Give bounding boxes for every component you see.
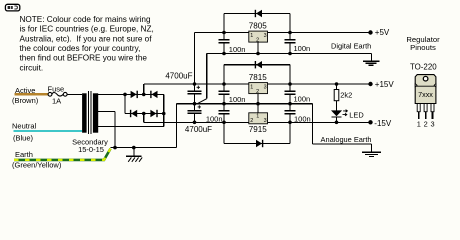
wire secondary top lead [98, 93, 131, 95]
svg-text:+5V: +5V [375, 28, 390, 37]
wire fuse to primary [67, 93, 82, 95]
wire 7805 input riser [194, 33, 196, 85]
wire bridge bottom row [125, 113, 164, 115]
node 7815 out junction [288, 82, 292, 86]
wire U3 pin1 to 0V [257, 104, 259, 113]
wire 7815 diode loop [224, 64, 290, 66]
svg-text:Earth: Earth [15, 150, 33, 159]
wire secondary centre tap [98, 111, 115, 113]
svg-text:Australia, etc). If you are n: Australia, etc). If you are not sure of [20, 34, 153, 43]
wire centre tap drop [114, 112, 116, 148]
wire U1 pin2 to gnd [257, 42, 259, 53]
svg-text:4700uF: 4700uF [185, 125, 212, 134]
svg-text:15-0-15: 15-0-15 [78, 145, 104, 154]
node C3 gnd [222, 52, 226, 56]
svg-text:LED: LED [349, 111, 363, 120]
node +15V terminal [368, 82, 372, 86]
capacitor C2 4700uF (bottom) [188, 104, 202, 123]
svg-text:circuit.: circuit. [20, 63, 44, 72]
diode D1 (bridge top-left) [131, 91, 137, 98]
node bridge AC2 joint [162, 112, 166, 116]
wire +V rail [144, 83, 249, 85]
transformer core [89, 91, 91, 134]
svg-text:Digital Earth: Digital Earth [331, 41, 371, 50]
svg-text:7805: 7805 [249, 21, 268, 30]
node C4 gnd [288, 52, 292, 56]
node C6 gnd [288, 102, 292, 106]
diode D3 (bridge bottom-left) [131, 110, 137, 117]
capacitor C1 4700uF (top) [188, 84, 202, 104]
node bridge -mid [142, 112, 146, 116]
wire bridge AC2 vertical [163, 94, 165, 126]
analogue earth symbol [362, 151, 381, 153]
svg-text:the colour codes for your coun: the colour codes for your country, [20, 44, 141, 53]
diode D7 (across 7915) [256, 140, 262, 147]
node C1+ on +V rail [193, 82, 197, 86]
node C2- on -V rail [193, 121, 197, 125]
wire earth bus [111, 147, 177, 149]
svg-text:3: 3 [264, 33, 267, 39]
svg-text:100n: 100n [294, 95, 311, 104]
fuse F1 [48, 92, 67, 96]
node 7805 out junction [288, 31, 292, 35]
capacitor C4 100n [284, 33, 295, 54]
svg-text:(Green/Yellow): (Green/Yellow) [12, 161, 62, 170]
svg-text:Analogue Earth: Analogue Earth [321, 135, 372, 144]
svg-text:7815: 7815 [249, 73, 268, 82]
svg-text:100n: 100n [229, 45, 246, 54]
logo icon [5, 4, 19, 11]
wire digital ground rail [207, 53, 372, 55]
TO-220 package [415, 75, 436, 119]
svg-text:NOTE: Colour code for mains wi: NOTE: Colour code for mains wiring [20, 15, 151, 24]
capacitor C6 100n [284, 84, 295, 104]
capacitor C7 100n [218, 104, 229, 123]
wire LED to -15V rail [336, 118, 338, 123]
svg-text:1: 1 [417, 119, 421, 128]
svg-text:3: 3 [264, 118, 267, 124]
svg-text:1A: 1A [52, 96, 61, 105]
svg-text:1: 1 [250, 84, 253, 90]
svg-text:3: 3 [431, 119, 435, 128]
node U2 gnd [256, 102, 260, 106]
svg-text:2k2: 2k2 [340, 90, 352, 99]
wire +V riser from bridge [143, 84, 145, 94]
diode D5 (across 7805) [256, 10, 262, 17]
wire 0V rail [177, 103, 313, 105]
node 7805 in junction [222, 31, 226, 35]
svg-text:-15V: -15V [374, 119, 392, 128]
svg-text:1: 1 [256, 114, 259, 120]
diode D2 (bridge top-right) [152, 91, 158, 98]
node C5 gnd [222, 102, 226, 106]
diode D4 (bridge bottom-right) [150, 110, 156, 117]
wire chassis ground stem [133, 148, 135, 157]
svg-text:100n: 100n [206, 115, 223, 124]
svg-text:is for IEC countries (e.g. Eur: is for IEC countries (e.g. Europe, NZ, [20, 25, 154, 34]
svg-text:100n: 100n [294, 115, 311, 124]
node bridge +mid [142, 93, 146, 97]
wire resistor to LED [336, 101, 338, 111]
wire 7915 diode loop [224, 143, 290, 145]
digital earth symbol [363, 60, 380, 62]
regulator U2 7815 body [249, 83, 268, 94]
svg-text:4700uF: 4700uF [165, 72, 192, 81]
diode D6 (across 7815) [256, 61, 262, 68]
wire earth (green/yellow) [14, 149, 111, 160]
wire neutral (blue) [14, 130, 83, 132]
wire -V dropper from bridge [143, 114, 145, 123]
chassis ground symbol [126, 156, 142, 161]
svg-text:2: 2 [424, 119, 428, 128]
wire 0V riser [176, 104, 178, 148]
svg-text:3: 3 [264, 84, 267, 90]
svg-text:7915: 7915 [249, 125, 268, 134]
node +5V terminal [368, 30, 372, 34]
regulator U3 7915 body [249, 113, 268, 124]
wire bridge AC1 vertical [124, 94, 126, 113]
svg-text:1: 1 [250, 33, 253, 39]
wire 7805 diode loop [224, 13, 290, 15]
resistor R1 2k2 [334, 90, 339, 101]
transformer primary winding [82, 93, 87, 132]
node chassis ground tap [132, 146, 136, 150]
svg-text:2: 2 [250, 118, 253, 124]
note text block [20, 15, 154, 73]
wire 7805 input rail [195, 32, 249, 34]
svg-text:7xxx: 7xxx [418, 90, 433, 99]
svg-text:Pinouts: Pinouts [410, 43, 436, 52]
svg-text:(Blue): (Blue) [13, 133, 34, 142]
regulator U1 7805 body [249, 31, 268, 42]
capacitor C3 100n [218, 33, 229, 54]
wire U2 pin2 to 0V [257, 94, 259, 104]
wire digital ground riser [206, 54, 208, 99]
node 2k2 top [335, 82, 339, 86]
svg-text:then find out BEFORE you wire: then find out BEFORE you wire the [20, 54, 148, 63]
svg-text:Neutral: Neutral [12, 121, 37, 130]
LED D8 [331, 110, 347, 117]
wire active (brown) [15, 93, 49, 95]
wire 7805 output rail [268, 32, 371, 34]
capacitor C8 100n [284, 104, 295, 123]
node 7915 out junction [288, 121, 292, 125]
node LED on -15V rail [335, 121, 339, 125]
transformer secondary winding [93, 93, 98, 132]
svg-text:(Brown): (Brown) [12, 96, 39, 105]
wire secondary bottom lead [98, 126, 164, 128]
wire +15V to resistor [336, 84, 338, 90]
svg-text:+15V: +15V [375, 80, 395, 89]
node 7915 in junction [222, 121, 226, 125]
node 7815 in junction [222, 82, 226, 86]
node U1 gnd [256, 52, 260, 56]
node C1- on 0V rail [193, 102, 197, 106]
wire -V rail [144, 121, 249, 123]
node -15V terminal [368, 120, 372, 124]
svg-text:TO-220: TO-220 [410, 63, 437, 72]
node centre-tap/earth [113, 146, 117, 150]
wire digital earth drop [371, 54, 373, 62]
svg-text:100n: 100n [294, 44, 311, 53]
wire analogue earth run [312, 104, 314, 144]
node secondary-top / bridge AC1 [123, 93, 127, 97]
capacitor C5 100n [218, 84, 229, 104]
wire bridge top row [125, 93, 164, 95]
svg-text:100n: 100n [229, 95, 246, 104]
